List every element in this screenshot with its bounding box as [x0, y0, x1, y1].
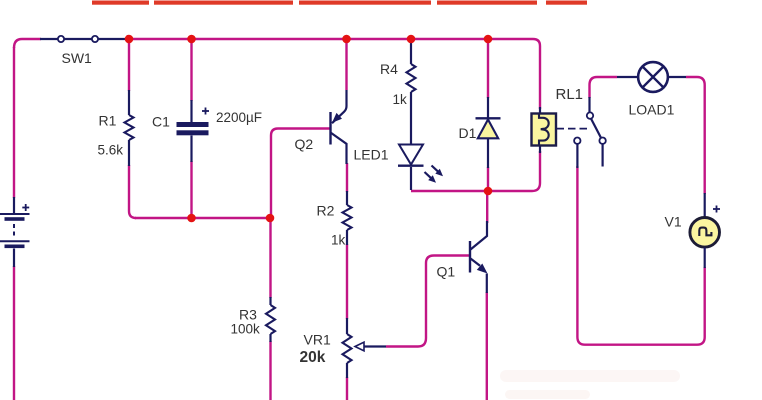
wire Q2 base to lower rail [271, 129, 331, 219]
resistor R4 [407, 43, 416, 145]
svg-text:Q2: Q2 [295, 136, 314, 152]
svg-text:R2: R2 [317, 203, 335, 219]
wire R3 bottom off page [269, 341, 271, 400]
AC source V1 [690, 193, 720, 268]
wire D1 top lead [487, 42, 489, 98]
wire Q1 collector up to node [486, 191, 488, 223]
relay coil RL1 [532, 114, 557, 146]
svg-text:100k: 100k [231, 322, 261, 337]
wire lower rail (R1/C1/R3 junctions) [135, 217, 270, 219]
node Q2 emitter [342, 35, 351, 44]
svg-text:R1: R1 [99, 113, 117, 129]
wire top rail with corner down to relay coil [125, 39, 540, 109]
wire Q2 emitter to top rail [345, 42, 347, 90]
svg-text:R4: R4 [380, 61, 398, 77]
svg-text:SW1: SW1 [62, 50, 93, 66]
C1 plus sign [202, 108, 209, 115]
svg-text:RL1: RL1 [556, 86, 584, 103]
svg-text:2200µF: 2200µF [216, 110, 262, 125]
diode D1 [476, 97, 501, 168]
wire Q1 base to VR1 wiper [386, 256, 470, 347]
relay coil top lead stub [539, 107, 541, 114]
svg-text:20k: 20k [300, 349, 326, 366]
lamp LOAD1 [617, 62, 686, 92]
wire left rail upper (battery +) [13, 47, 15, 198]
faint watermark bottom right [500, 370, 680, 399]
svg-text:1k: 1k [331, 233, 346, 248]
capacitor C1 [177, 100, 209, 162]
svg-text:1k: 1k [393, 92, 408, 107]
node R4 top [407, 35, 416, 44]
svg-text:V1: V1 [665, 214, 682, 230]
switch SW1 [40, 36, 126, 42]
node C1 top [187, 35, 196, 44]
wire VR1 bottom off page [346, 377, 348, 400]
svg-text:LOAD1: LOAD1 [629, 102, 675, 118]
node D1 top [484, 35, 493, 44]
svg-text:C1: C1 [152, 114, 170, 130]
wire V1 bottom loop back to relay contact [577, 166, 704, 345]
LED1 emission arrows [425, 166, 444, 183]
wire R3 top [269, 218, 271, 298]
wire LED1/D1/coil bottom node [411, 151, 540, 191]
relay coil bottom lead stub [539, 145, 541, 153]
svg-text:D1: D1 [459, 125, 477, 141]
wire lamp right to V1 top [686, 77, 705, 194]
wire D1 bottom lead [487, 167, 489, 191]
wire R2 bottom to VR1 top [346, 244, 348, 319]
junction dots [125, 35, 493, 223]
svg-text:R3: R3 [239, 307, 257, 323]
resistor R1 [125, 90, 134, 166]
cropped red title text at top [92, 1, 587, 5]
svg-text:LED1: LED1 [354, 147, 389, 163]
transistor Q1 (NPN) [470, 221, 488, 293]
node Q1 collector [484, 187, 493, 196]
wire Q1 emitter off page [486, 292, 488, 400]
transistor Q2 (PNP) [331, 90, 347, 164]
node R3 top [266, 214, 275, 223]
wire R1 top lead [128, 42, 130, 91]
relay actuation dashed link [557, 128, 589, 130]
wire relay contact common up to lamp [590, 77, 618, 98]
node SW1/R1 [125, 35, 134, 44]
wire left rail lower (battery -) [13, 266, 15, 400]
V1 plus sign [713, 206, 720, 213]
resistor R3 [266, 297, 275, 342]
potentiometer VR1 [343, 318, 387, 378]
relay contacts [574, 97, 606, 168]
resistor R2 [343, 191, 352, 245]
battery plus sign [22, 204, 29, 211]
node C1 bottom [187, 214, 196, 223]
svg-text:5.6k: 5.6k [98, 143, 124, 158]
svg-text:Q1: Q1 [437, 264, 456, 280]
wire R1 bottom to ground rail [129, 165, 136, 218]
battery B1 [0, 197, 30, 267]
wire top-left corner to SW1 [14, 39, 41, 48]
svg-text:VR1: VR1 [304, 332, 331, 348]
LED LED1 [398, 145, 424, 191]
wire C1 bottom lead [190, 161, 192, 218]
wire C1 top lead [190, 42, 192, 101]
wire Q2 collector to R2 [346, 163, 348, 192]
